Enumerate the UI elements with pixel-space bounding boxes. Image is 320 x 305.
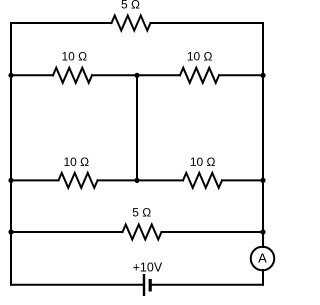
svg-text:5 Ω: 5 Ω	[132, 206, 151, 220]
svg-text:+10V: +10V	[133, 260, 163, 274]
svg-text:A: A	[258, 251, 267, 266]
svg-text:10 Ω: 10 Ω	[190, 155, 216, 169]
svg-text:10 Ω: 10 Ω	[61, 50, 87, 64]
svg-text:5 Ω: 5 Ω	[121, 0, 140, 12]
svg-text:10 Ω: 10 Ω	[187, 50, 213, 64]
svg-text:10 Ω: 10 Ω	[63, 155, 89, 169]
